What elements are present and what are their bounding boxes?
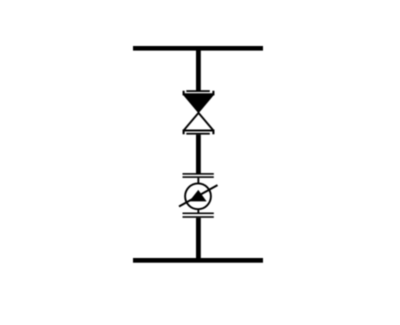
wire (top rail to valve symbol) [196, 50, 201, 92]
variable pump body: circle [185, 183, 211, 209]
wire (lower coupling to bottom rail) [196, 218, 201, 258]
valve poppet: filled triangle pointing down [183, 94, 215, 113]
top rail (upper supply line) [133, 46, 263, 51]
wire (valve to upper coupling) [196, 135, 201, 175]
lower coupling line 2 [183, 216, 214, 218]
stub wire (pump circle to lower coupling) [197, 209, 199, 212]
lower coupling line 1 [183, 213, 214, 215]
stub wire (coupling to pump circle) [197, 178, 199, 183]
bottom cup (seat line with downturned ends) [184, 131, 214, 135]
upper coupling line 1 [183, 173, 214, 175]
upper coupling line 2 [183, 176, 214, 178]
top connection bar of valve [186, 90, 210, 92]
adjustment arrow (diagonal line through circle) [179, 185, 218, 206]
valve body: open triangle pointing up [184, 113, 214, 131]
bottom connection bar of valve [186, 133, 210, 135]
bottom rail (lower supply line) [133, 258, 263, 263]
top cup (seat line with upturned ends) [184, 91, 214, 95]
pump flow element: filled triangle pointing up [189, 190, 206, 202]
